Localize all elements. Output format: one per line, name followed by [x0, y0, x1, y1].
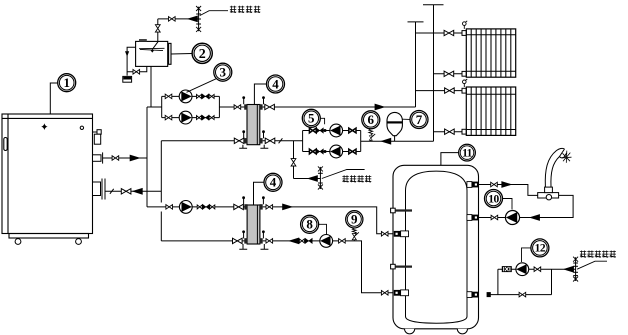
valve P3 top outer	[209, 94, 214, 98]
union tick HX1 bottom-right	[279, 138, 283, 143]
valve loop b	[339, 239, 346, 244]
valve on mid makeup vertical	[291, 159, 296, 166]
tank T11 port mid-right	[467, 215, 479, 221]
buffer tank T11 inner shell	[406, 171, 468, 323]
tank T2 overflow pipe	[127, 47, 136, 75]
wire cold water inlet loop	[498, 268, 576, 270]
union tick boiler return	[110, 189, 114, 194]
pump P5 top	[330, 124, 343, 137]
boundary connection symbol tap water	[573, 257, 578, 281]
wire return riser	[423, 5, 444, 141]
valve makeup top	[169, 17, 176, 22]
union node P5 bottom	[324, 150, 327, 153]
tank T2 drain pipe	[127, 66, 147, 71]
label circle 2	[192, 43, 212, 63]
pump P10	[505, 210, 519, 224]
HX1 foot left	[239, 145, 247, 149]
valve loop a	[299, 239, 304, 243]
wire expansion pipe from tank T2	[150, 66, 152, 107]
wire cold loop right drop	[551, 269, 553, 294]
flow arrow right boiler supply	[130, 155, 141, 162]
boiler body	[2, 114, 93, 238]
radiator R1	[462, 29, 516, 77]
HX1 sensor pin top-left	[242, 96, 245, 104]
valve HX2 feed discharge	[197, 205, 202, 209]
svg-text:4: 4	[272, 76, 279, 91]
svg-text:9: 9	[351, 212, 358, 227]
flow arrow right to tank	[282, 204, 293, 211]
wire radiator R1 return branch	[434, 73, 463, 75]
label circle 9	[346, 211, 363, 228]
air vent radiator R1	[463, 21, 468, 29]
label circle 8 leader	[319, 224, 327, 234]
label circle 1 leader	[50, 83, 58, 114]
HX1 port flange bottom-left	[244, 138, 247, 143]
tank T11 port mid-left	[394, 231, 409, 237]
wire hot water out to mixer	[479, 185, 538, 196]
makeup connection mid vertical	[293, 141, 295, 179]
wire HX1 bottom-left return	[161, 140, 244, 142]
safety valve SV6	[369, 129, 375, 141]
wire radiator return line	[361, 140, 434, 142]
HX1 sensor pin bottom-left	[242, 130, 245, 138]
svg-text:10: 10	[488, 193, 499, 205]
HX1 port flange top-right	[259, 104, 262, 109]
svg-text:5: 5	[308, 111, 315, 126]
HX1 port flange bottom-right	[259, 138, 262, 143]
valve tank mid-left port	[381, 232, 388, 237]
wire supply trunk vertical	[146, 107, 148, 207]
valve HX1 top-left	[234, 105, 241, 110]
valve cold bypass	[519, 292, 526, 297]
flow arrow left makeup top	[187, 16, 198, 23]
leader to tap water text	[577, 261, 607, 269]
svg-text:2: 2	[199, 47, 206, 62]
boiler foot right	[76, 239, 82, 245]
label circle 6	[362, 111, 380, 129]
wire HX2 feed line	[147, 206, 245, 208]
valve P3 bottom outer	[209, 116, 214, 120]
valve radiator R2 supply	[445, 88, 455, 93]
pump P8	[320, 235, 333, 248]
valve on drain	[133, 70, 140, 75]
wire HX1 top-right supply to radiators	[263, 106, 416, 108]
check valve P3 bottom	[202, 115, 209, 120]
valve P3 top suction	[165, 94, 172, 99]
valve P5 top left	[309, 128, 316, 133]
wire cold loop left drop	[497, 269, 499, 294]
boundary connection symbol makeup mid	[318, 167, 323, 189]
check valve HX2 feed	[203, 204, 210, 209]
label circle 8	[301, 215, 319, 233]
text softened water mid	[342, 175, 371, 182]
valve HX1 top-right	[265, 104, 275, 109]
label circle 4 HX2 leader	[254, 182, 265, 205]
pump group P3 loop frame	[162, 96, 220, 117]
valve P5 bottom right	[349, 149, 356, 154]
flow arrow left makeup mid	[307, 175, 318, 182]
wire return trunk vertical lower	[160, 212, 162, 241]
valve HX2 feed outer	[210, 205, 215, 209]
boiler return stub	[93, 179, 106, 200]
HX2 foot right	[261, 244, 269, 249]
flow arrow left cold water	[563, 266, 574, 273]
HX1 sensor pin top-right	[262, 96, 265, 104]
svg-text:11: 11	[462, 148, 473, 160]
HX2 sensor pin bottom-right	[262, 230, 265, 238]
HX2 foot left	[239, 244, 247, 249]
overflow down arrow	[125, 51, 129, 56]
shower hose	[545, 148, 564, 187]
strainer before pump P12	[502, 266, 512, 272]
svg-text:4: 4	[270, 175, 277, 190]
HX2 port flange top-left	[244, 204, 247, 209]
flow arrow right radiator supply	[375, 104, 386, 111]
shower mixer body	[538, 187, 559, 200]
boiler supply stub	[93, 152, 103, 163]
wire HX1 bottom-right to pump group P5	[263, 140, 303, 142]
shower head	[560, 149, 567, 158]
pump P3 bottom	[179, 111, 192, 124]
radiator R2	[462, 87, 516, 135]
wire feed to pump group P3	[147, 106, 162, 108]
HX2 sensor pin bottom-left	[242, 230, 245, 238]
svg-text:7: 7	[416, 112, 423, 127]
pump P5 bottom	[330, 145, 343, 158]
label circle 1	[58, 74, 76, 92]
tank T2 water level	[139, 48, 165, 50]
wire recirculation line	[479, 195, 573, 217]
flow arrow left radiator return	[380, 138, 391, 145]
float valve on tank T2 fill	[155, 25, 160, 32]
tank T11 foot right	[457, 329, 467, 334]
valve P3 bottom suction	[165, 115, 172, 120]
wire boiler return	[105, 190, 161, 192]
valve radiator R1 supply	[444, 30, 454, 35]
label circle 10 leader	[503, 199, 512, 210]
boiler front small circle	[80, 126, 83, 129]
label circle 12 leader	[522, 248, 531, 262]
label circle 4 HX1	[267, 75, 285, 93]
text softened water top	[230, 6, 260, 13]
tank T11 left stub lower	[391, 264, 412, 269]
label circle 3	[214, 63, 232, 81]
label circle 3 leader	[187, 79, 217, 93]
heat exchanger HX2 body	[247, 205, 260, 244]
wire radiator R2 supply branch	[416, 90, 463, 92]
boiler gauge stub	[93, 130, 102, 145]
wire return trunk vertical upper	[160, 141, 162, 203]
svg-text:12: 12	[535, 243, 546, 255]
drain funnel	[123, 76, 132, 82]
leader line to softened water text top	[200, 11, 228, 16]
valve HX1 bottom-right	[265, 138, 275, 143]
label circle 4 HX1 leader	[254, 84, 266, 105]
label circle 12	[531, 239, 549, 257]
label circle 2 leader	[171, 53, 192, 56]
label circle 5 leader	[321, 118, 325, 124]
label circle 7	[410, 111, 428, 129]
svg-text:1: 1	[63, 75, 70, 90]
boiler foot left	[15, 239, 21, 245]
pump P12	[516, 263, 529, 276]
wire HX2 top-right to tank	[263, 207, 394, 234]
HX2 port flange top-right	[260, 204, 263, 209]
union node P5 top	[324, 129, 327, 132]
flow arrow left recirculation	[529, 214, 540, 221]
valve HX2 feed suction	[166, 205, 173, 210]
svg-text:8: 8	[306, 217, 313, 232]
cap node cold bypass	[487, 292, 491, 297]
tank T2 top cap	[139, 39, 147, 41]
wire HX2 bottom-left return	[161, 240, 245, 242]
flow arrow left boiler return	[132, 188, 143, 195]
wire radiator R2 return branch	[434, 131, 463, 133]
HX1 port flange top-left	[244, 104, 247, 109]
HX2 port flange bottom-right	[260, 238, 263, 243]
expansion vessel V7	[387, 112, 402, 141]
HX1 sensor pin bottom-right	[262, 130, 265, 138]
tank T11 left stub upper	[391, 208, 412, 213]
boundary connection symbol makeup top	[196, 7, 201, 32]
valve P3 top discharge	[197, 94, 202, 98]
flow arrow left into HX2	[288, 238, 299, 245]
label circle 11	[459, 144, 476, 161]
valve P5 top right	[349, 128, 356, 133]
check valve P5 top	[316, 128, 323, 133]
valve P5 bottom left	[309, 149, 316, 154]
label circle 10	[485, 190, 503, 208]
valve recirculation at tank	[491, 215, 498, 220]
wire cold bypass line	[491, 294, 552, 296]
valve HX1 bottom-left	[234, 138, 244, 143]
wire radiator R1 supply branch	[416, 32, 463, 34]
safety valve SV9	[352, 228, 359, 241]
makeup water pipe to tank T2	[157, 19, 159, 42]
pump group P5 loop frame	[303, 131, 361, 152]
valve HX2 top-left	[234, 204, 244, 209]
valve on boiler supply	[112, 156, 119, 161]
pump P3 top	[179, 90, 192, 103]
HX2 sensor pin top-right	[262, 196, 265, 204]
valve after pump P12	[534, 267, 541, 272]
check valve loop	[305, 238, 312, 243]
check valve P3 top	[202, 94, 209, 99]
tank T11 foot left	[405, 329, 415, 334]
wire makeup water line top	[158, 18, 199, 20]
flow arrow right hot water	[501, 181, 512, 188]
valve tank bottom-left port	[381, 291, 388, 296]
wire supply riser	[408, 22, 424, 107]
svg-text:6: 6	[368, 112, 375, 127]
check valve P5 bottom	[316, 149, 323, 154]
valve HX2 bottom-left	[233, 238, 243, 243]
wire HX2 bottom-right loop from tank	[263, 241, 394, 293]
shower spray	[562, 151, 572, 163]
leader to softened water text mid	[322, 170, 365, 179]
valve HX2 bottom-right	[266, 239, 273, 244]
air vent radiator R2	[463, 79, 468, 87]
valve on boiler return	[121, 189, 131, 194]
wire P3 outlet to HX1	[219, 106, 244, 108]
buffer tank T11 outer shell	[393, 165, 479, 328]
valve P3 bottom discharge	[197, 116, 202, 120]
wire boiler supply	[103, 157, 147, 159]
wire makeup mid horizontal	[294, 178, 321, 180]
heat exchanger HX1 body	[247, 105, 260, 145]
HX2 sensor pin top-left	[242, 196, 245, 204]
label circle 11 leader	[441, 153, 459, 166]
tank T11 port bottom-right	[467, 292, 479, 298]
label circle 5	[302, 109, 320, 127]
tank T2 fill dip tube	[152, 41, 158, 49]
valve radiator R1 return	[444, 71, 454, 76]
valve HX2 top-right	[266, 205, 273, 210]
svg-text:3: 3	[220, 65, 227, 80]
HX2 port flange bottom-left	[244, 238, 247, 243]
tank T11 port top-right	[467, 182, 479, 188]
valve hot water out	[491, 182, 498, 187]
tank T11 port bottom-left	[394, 290, 409, 296]
boiler front diamond mark	[41, 123, 47, 130]
text tap water	[580, 251, 616, 258]
expansion tank T2 body	[136, 41, 171, 66]
valve radiator R2 return	[445, 129, 455, 134]
HX1 foot right	[260, 145, 268, 149]
label circle 7 leader	[402, 118, 410, 120]
pump P-HX2	[179, 201, 192, 214]
label circle 4 HX2	[264, 173, 282, 191]
